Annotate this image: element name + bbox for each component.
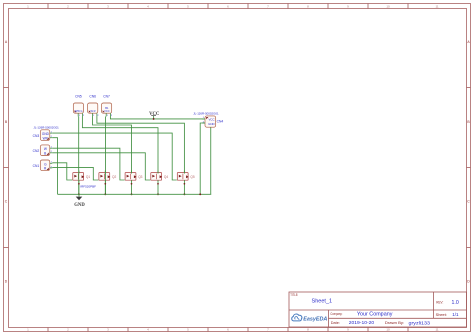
svg-text:Drawn By:: Drawn By: [385, 321, 404, 325]
svg-text:11: 11 [435, 328, 438, 332]
svg-text:CN5: CN5 [75, 95, 82, 99]
svg-text:Q2: Q2 [112, 175, 116, 179]
svg-text:Sheet_1: Sheet_1 [312, 298, 333, 304]
svg-text:GND: GND [74, 203, 85, 208]
svg-text:2019-10-20: 2019-10-20 [349, 320, 375, 325]
svg-text:IRF520PBF: IRF520PBF [80, 184, 96, 188]
svg-text:Q3: Q3 [138, 175, 142, 179]
svg-text:CN1: CN1 [33, 164, 40, 168]
svg-text:Q4: Q4 [164, 175, 168, 179]
svg-text:Your Company: Your Company [357, 311, 393, 317]
svg-text:TITLE:: TITLE: [290, 293, 298, 297]
svg-text:W R: W R [90, 109, 95, 113]
svg-text:EasyEDA: EasyEDA [303, 317, 327, 323]
svg-text:JL-126R-50002G01: JL-126R-50002G01 [193, 112, 219, 116]
svg-text:CN3: CN3 [33, 134, 40, 138]
svg-text:10: 10 [386, 328, 390, 332]
svg-text:REV:: REV: [436, 300, 443, 304]
svg-text:VCC: VCC [104, 109, 110, 113]
svg-text:CN7: CN7 [103, 95, 110, 99]
svg-text:Q5: Q5 [190, 175, 194, 179]
svg-text:B: B [44, 152, 46, 156]
svg-text:Date:: Date: [331, 321, 340, 325]
svg-text:WW G: WW G [75, 109, 83, 113]
svg-text:1/1: 1/1 [452, 312, 459, 317]
svg-text:11: 11 [435, 4, 438, 8]
svg-text:JL-126R-50002G01: JL-126R-50002G01 [33, 125, 59, 129]
svg-text:CN6: CN6 [89, 95, 96, 99]
svg-text:VCC: VCC [149, 112, 160, 117]
svg-text:CN2: CN2 [33, 149, 40, 153]
svg-text:1.0: 1.0 [452, 300, 459, 306]
svg-text:gryzli133: gryzli133 [409, 320, 431, 325]
svg-text:Sheet:: Sheet: [436, 313, 447, 317]
svg-text:Company:: Company: [330, 312, 342, 316]
svg-text:GND: GND [208, 122, 214, 126]
svg-text:Q1: Q1 [86, 175, 90, 179]
svg-text:CN4: CN4 [217, 119, 224, 123]
svg-text:10: 10 [386, 4, 390, 8]
